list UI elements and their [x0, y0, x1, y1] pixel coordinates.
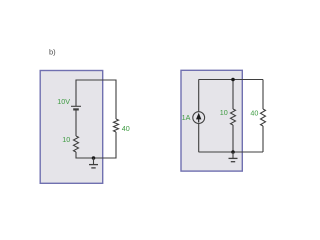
svg-text:10V: 10V: [57, 97, 70, 106]
battery V1 10V: [71, 106, 81, 109]
resistor R3 10: [231, 109, 236, 125]
wire: current source branch lower: [198, 124, 200, 153]
source-region box (left circuit): [40, 71, 102, 184]
wire: resistor 40 branch (right): [262, 80, 264, 110]
node: bottom junction: [231, 150, 235, 154]
wire: resistor 10 branch lower: [232, 125, 234, 152]
source-region box (right circuit): [181, 70, 242, 171]
ground (right circuit): [229, 152, 238, 162]
svg-text:1A: 1A: [182, 113, 191, 122]
svg-text:40: 40: [122, 124, 130, 133]
svg-text:10: 10: [220, 108, 228, 117]
resistor R2 40: [114, 119, 119, 132]
wire: right circuit top: [199, 79, 264, 81]
svg-text:40: 40: [250, 108, 258, 117]
node: bottom junction: [92, 156, 96, 160]
resistor R1 10: [74, 136, 79, 152]
wire: battery to resistor 10: [75, 111, 77, 137]
wire: resistor 40 branch lower: [262, 126, 264, 152]
svg-text:10: 10: [62, 135, 70, 144]
ground (left circuit): [89, 158, 98, 168]
node: top junction: [231, 78, 235, 82]
wire: left circuit top: [76, 80, 116, 119]
svg-text:b): b): [49, 48, 56, 57]
resistor R4 40: [261, 109, 266, 126]
wire: right circuit bottom: [199, 151, 264, 153]
wire: resistor 10 branch upper: [232, 80, 234, 110]
current source I1 1A: [193, 112, 205, 124]
wire: left circuit bottom: [76, 132, 116, 158]
wire: current source branch upper: [198, 80, 200, 112]
